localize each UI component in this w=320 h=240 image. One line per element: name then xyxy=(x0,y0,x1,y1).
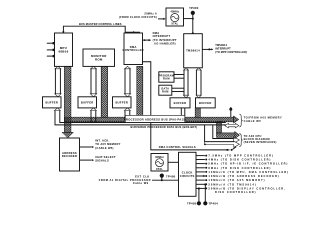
svg-text:TP405: TP405 xyxy=(187,202,197,206)
bus DMA address (hatched) xyxy=(137,66,143,117)
wire buffer4 output xyxy=(181,108,185,117)
svg-text:XTAL: XTAL xyxy=(156,167,163,171)
svg-text:BUFFER: BUFFER xyxy=(115,100,128,104)
buffer 1 xyxy=(43,97,62,108)
svg-text:Cable W9: Cable W9 xyxy=(133,181,149,185)
block DATA RAM xyxy=(159,85,172,95)
label bus master control lines xyxy=(79,22,122,26)
wire ext clk to clock circuits xyxy=(152,179,179,181)
node MPU input ticks xyxy=(47,42,55,57)
wire clock output 20MHz/A xyxy=(196,182,257,186)
label TMS9914 interrupt to MPP controller xyxy=(215,43,247,54)
bus MPU address (hatched, down to address bus and decoder) xyxy=(64,66,71,132)
wire A02 arrowhead upper xyxy=(234,137,240,143)
svg-text:20MHz/B (TO DISPLAY CONTROLLER: 20MHz/B (TO DISPLAY CONTROLLER, xyxy=(208,186,285,190)
bus address arrowhead to memory xyxy=(234,116,239,123)
bus ROM address (hatched) xyxy=(101,66,107,117)
test point TP300 xyxy=(189,6,199,34)
bus buffer5 output (hatched) xyxy=(195,108,200,118)
svg-text:DISK CONTROLLER): DISK CONTROLLER) xyxy=(215,190,256,194)
svg-text:40MHz: 40MHz xyxy=(170,9,179,13)
svg-text:20MHz/A (TO TMS9914): 20MHz/A (TO TMS9914) xyxy=(208,182,256,186)
svg-text:(CABLE W5): (CABLE W5) xyxy=(95,146,114,150)
label int ack to A05 memory xyxy=(95,139,121,150)
svg-text:BUFFERED PROCESSOR DATA BUS (B: BUFFERED PROCESSOR DATA BUS (BD0-BD7) xyxy=(131,125,198,129)
wire DMA interrupt xyxy=(143,39,152,41)
node address bus test stub xyxy=(229,107,232,117)
svg-text:TMS9914: TMS9914 xyxy=(215,43,227,47)
bus decoder arrowhead xyxy=(62,132,74,138)
wire MPU data to buffer1 xyxy=(55,66,61,96)
label 20MHz A from clock circuits xyxy=(119,12,157,19)
svg-text:10MHz/E (TO MPU, DMA CONTROLLE: 10MHz/E (TO MPU, DMA CONTROLLER) xyxy=(208,170,289,174)
svg-text:TMS9914: TMS9914 xyxy=(186,49,200,53)
svg-text:5MHz (TO HP-IB I/F, IE CONTROL: 5MHz (TO HP-IB I/F, IE CONTROLLER) xyxy=(208,162,288,166)
crystal oscillator 40MHz XTAL xyxy=(166,8,184,26)
svg-text:(TO MPP CONTROLLER): (TO MPP CONTROLLER) xyxy=(215,50,247,54)
buffer 5 xyxy=(196,98,216,108)
bus TMS9914 left pair to buffer4 xyxy=(183,68,188,98)
svg-text:10MHz/B (TO ADDRESS DECODER): 10MHz/B (TO ADDRESS DECODER) xyxy=(208,174,279,178)
svg-text:CIRCUITS: CIRCUITS xyxy=(180,174,195,178)
wire buffer2 output xyxy=(90,108,96,123)
svg-text:INTERRUPT: INTERRUPT xyxy=(215,47,231,51)
wire clock output 20MHz/B xyxy=(196,186,286,190)
block TMS9914 xyxy=(184,34,203,68)
svg-text:TO A05 MEMORY: TO A05 MEMORY xyxy=(95,142,121,146)
svg-text:INTERRUPT: INTERRUPT xyxy=(153,34,171,38)
svg-text:PROCESSOR ADDRESS BUS (PA0-PA1: PROCESSOR ADDRESS BUS (PA0-PA15) xyxy=(124,118,187,122)
svg-text:TO/FROM A05 MEMORY: TO/FROM A05 MEMORY xyxy=(244,116,283,120)
bus TMS9914 right pair to buffer5 xyxy=(196,68,201,98)
label DMA interrupt xyxy=(153,31,177,46)
wire data bus tee down to A02 arrow xyxy=(205,125,234,142)
wire memory data double arrow xyxy=(225,123,239,127)
wire ROM data to buffer2 xyxy=(90,66,96,96)
label buffered processor data bus xyxy=(131,125,198,129)
wire DMA data to buffer3 xyxy=(124,66,130,96)
block CLOCK CIRCUITS xyxy=(179,152,197,196)
svg-text:10MHz/C (TO A05 MEMORY): 10MHz/C (TO A05 MEMORY) xyxy=(208,178,265,182)
svg-text:ROM: ROM xyxy=(95,57,103,61)
svg-text:RAM: RAM xyxy=(163,76,170,80)
svg-text:CONTROLLER: CONTROLLER xyxy=(123,48,144,52)
svg-text:CHIP SELECT: CHIP SELECT xyxy=(95,155,116,159)
bus hatched branch to A02 xyxy=(217,122,240,139)
label disk controller continuation xyxy=(215,190,256,194)
crystal oscillator 30MHz XTAL xyxy=(151,154,168,172)
wire int ack xyxy=(80,146,95,148)
svg-text:CABLE W5: CABLE W5 xyxy=(244,119,262,123)
test point TP404 xyxy=(203,184,218,206)
svg-text:BUFFER: BUFFER xyxy=(45,100,58,104)
label processor address bus xyxy=(124,115,187,122)
svg-text:TP400: TP400 xyxy=(166,174,176,178)
svg-text:(FROM CLOCK CIRCUITS): (FROM CLOCK CIRCUITS) xyxy=(119,15,157,19)
svg-text:DECODER: DECODER xyxy=(62,154,77,158)
buffer 4 xyxy=(170,98,190,108)
svg-text:68B09: 68B09 xyxy=(58,49,68,53)
wire DMA control signals xyxy=(143,62,237,151)
wire PROGRAM RAM to TMS bus xyxy=(174,75,184,79)
svg-text:BUFFER: BUFFER xyxy=(199,101,212,105)
wire clock output 4MHz xyxy=(196,158,271,162)
wire buffer1 output to data bus xyxy=(54,108,225,125)
svg-text:I/O HANDLER): I/O HANDLER) xyxy=(154,41,176,45)
wire crystal to clock circuits xyxy=(168,161,179,163)
brace to/from A05 memory xyxy=(239,114,242,127)
wire crystal to TMS riser xyxy=(184,18,193,20)
svg-text:BUS MASTER CONTROL LINES: BUS MASTER CONTROL LINES xyxy=(79,22,122,26)
buffer 3 xyxy=(113,97,132,108)
bus processor address bus (hatched horizontal) xyxy=(64,117,233,122)
svg-text:TP404: TP404 xyxy=(209,202,219,206)
svg-text:30MHz: 30MHz xyxy=(155,155,164,159)
test point TP405 xyxy=(187,188,201,206)
label ext clk from A1 digital processor xyxy=(99,175,151,186)
svg-text:TP300: TP300 xyxy=(189,6,199,10)
svg-text:RAM: RAM xyxy=(162,90,169,94)
block DMA CONTROLLER xyxy=(123,33,144,65)
label DMA control signals xyxy=(159,145,196,149)
label chip select signals xyxy=(95,155,116,163)
wire clock output 10MHz/E xyxy=(196,170,289,174)
block PROGRAM RAM xyxy=(159,72,174,82)
wire buffer3 output xyxy=(124,108,130,123)
block MPU 68B09 xyxy=(55,33,73,66)
svg-text:(SEVEN INTERFACES): (SEVEN INTERFACES) xyxy=(244,140,277,144)
svg-text:BUFFER: BUFFER xyxy=(81,100,94,104)
block ADDRESS DECODER xyxy=(60,138,80,171)
wire DATA RAM to TMS bus xyxy=(172,88,184,91)
test point TP400 xyxy=(160,174,176,182)
svg-text:INT. ACK.: INT. ACK. xyxy=(95,139,109,143)
wire clock output 10MHz/C xyxy=(196,178,265,182)
wire clock output 5MHz xyxy=(196,162,288,166)
svg-text:DMA: DMA xyxy=(153,31,160,35)
wire TMS9914 interrupt xyxy=(202,48,213,50)
block MONITOR ROM xyxy=(83,49,115,66)
wire chip select xyxy=(80,159,95,161)
svg-text:4MHz (TO DISK CONTROLLER): 4MHz (TO DISK CONTROLLER) xyxy=(208,158,271,162)
buffer 2 xyxy=(78,97,97,108)
svg-text:8MHz (TO DISK CONTROLLER): 8MHz (TO DISK CONTROLLER) xyxy=(208,166,271,170)
wire clock output 8MHz xyxy=(196,166,271,170)
svg-text:7.5MHz (TO MPP CONTROLLER): 7.5MHz (TO MPP CONTROLLER) xyxy=(208,154,273,158)
svg-text:XTAL: XTAL xyxy=(171,22,178,26)
svg-text:SIGNALS: SIGNALS xyxy=(95,159,109,163)
label to/from A05 memory xyxy=(244,116,283,124)
svg-text:(TO INTERRUPT: (TO INTERRUPT xyxy=(153,38,177,42)
wire 20MHz A into crystal xyxy=(158,18,166,20)
wire clock output 7.5MHz xyxy=(196,154,274,158)
wire DMA control to A02 arrow lower xyxy=(204,141,239,147)
svg-text:DMA CONTROL SIGNALS: DMA CONTROL SIGNALS xyxy=(159,145,196,149)
wire clock output 10MHz/B xyxy=(196,174,280,178)
label to A02 CPU block diagram xyxy=(244,134,277,144)
svg-text:BUFFER: BUFFER xyxy=(174,101,187,105)
brace to A02 CPU xyxy=(239,133,242,146)
wire bus master control lines xyxy=(63,26,140,33)
